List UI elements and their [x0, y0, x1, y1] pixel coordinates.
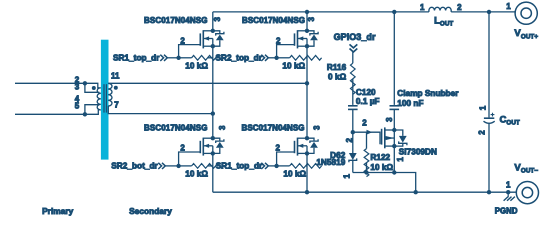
label COUT [500, 115, 520, 127]
wire leg B vertical [306, 12, 308, 192]
wire snubber to Si7309 drain [393, 109, 395, 130]
junction top rail / clamp column [392, 10, 396, 14]
junction bottom rail / leg B [305, 190, 309, 194]
label Q1 [144, 16, 208, 25]
label C120 [356, 88, 380, 106]
svg-text:BSC017N04NSG: BSC017N04NSG [144, 16, 208, 25]
wire primary pin4 jog [85, 105, 100, 115]
capacitor C120 [348, 106, 358, 110]
svg-text:3: 3 [313, 125, 322, 130]
transformer secondary winding [108, 83, 112, 106]
junction clamp gate node [351, 130, 355, 134]
wire C120 to clamp node [352, 109, 354, 132]
svg-text:11: 11 [111, 71, 120, 80]
label Q1 pin 2 [180, 37, 185, 46]
ground PGND [504, 190, 515, 201]
label Q2 gate resistor 10k [282, 61, 305, 70]
svg-text:OUT: OUT [440, 21, 454, 28]
svg-text:OUT: OUT [506, 119, 520, 126]
label D62 pin 2 [345, 137, 354, 142]
svg-text:SR1_top_dr: SR1_top_dr [113, 53, 160, 62]
svg-text:10 kΩ: 10 kΩ [370, 163, 393, 172]
label Q4 pin 2 [276, 143, 281, 152]
svg-text:R116: R116 [327, 63, 347, 72]
label LOUT [434, 16, 453, 28]
svg-text:GPIO3_dr: GPIO3_dr [334, 32, 376, 42]
svg-text:BSC017N04NSG: BSC017N04NSG [144, 123, 208, 132]
label Q3 [144, 123, 208, 132]
svg-text:3: 3 [213, 16, 222, 21]
label Si7309 pin 3 [385, 117, 394, 122]
diode D62 1N5819 [349, 132, 357, 172]
junction primary B [83, 112, 87, 116]
svg-text:SR2_top_dr: SR2_top_dr [216, 53, 263, 62]
wire secondary pin 11 [108, 82, 307, 84]
wire primary input B [15, 110, 99, 114]
label LOUT pin 1 [420, 3, 425, 12]
svg-text:1: 1 [342, 174, 351, 179]
svg-text:2: 2 [276, 143, 281, 152]
wire Si7309 source down [393, 146, 395, 172]
label VOUT- pin 1 [506, 180, 511, 189]
svg-text:10 kΩ: 10 kΩ [282, 61, 305, 70]
svg-text:2: 2 [362, 118, 367, 127]
label Secondary [129, 206, 172, 216]
label VOUT+ pin 1 [506, 2, 511, 11]
label Primary [42, 206, 74, 216]
svg-text:100 nF: 100 nF [397, 99, 423, 108]
label Q2 [242, 16, 305, 25]
svg-text:BSC017N04NSG: BSC017N04NSG [242, 16, 305, 25]
pin 4 label [75, 95, 80, 104]
label COUT pin 2 [477, 130, 486, 135]
svg-text:2: 2 [180, 37, 185, 46]
svg-text:BSC017N04NSG: BSC017N04NSG [242, 123, 305, 132]
label Q2 pin 2 [276, 37, 281, 46]
label Q1 pin 3 [213, 16, 222, 21]
label R116 [327, 63, 347, 82]
transformer core [104, 84, 106, 112]
svg-text:3: 3 [307, 16, 316, 21]
capacitor clamp snubber 100nF [390, 106, 400, 110]
svg-text:2: 2 [345, 137, 354, 142]
terminal VOUT+ [515, 2, 537, 24]
label Si7309 pin 1 [396, 157, 405, 162]
junction bottom rail / COUT column [487, 190, 491, 194]
svg-text:SR2_bot_dr: SR2_bot_dr [111, 161, 158, 170]
label Q3 pin 2 [180, 143, 185, 152]
resistor R116 [350, 63, 355, 94]
pin 5 label [75, 102, 80, 111]
label LOUT pin 2 [457, 3, 462, 12]
label Q3 gate resistor 10k [185, 169, 208, 178]
wire primary input A [15, 83, 99, 88]
label Q4 pin 3 [313, 125, 322, 130]
wire clamp bottom [353, 173, 416, 193]
svg-text:0.1 µF: 0.1 µF [356, 97, 380, 106]
svg-text:R122: R122 [370, 153, 390, 162]
pin 11 label [111, 71, 120, 80]
svg-text:Primary: Primary [42, 206, 74, 216]
label D62 pin 1 [342, 174, 351, 179]
svg-text:1: 1 [396, 157, 405, 162]
svg-text:1: 1 [506, 2, 511, 11]
label VOUT- [514, 163, 538, 175]
label D62 [316, 151, 345, 167]
secondary phase dot [114, 86, 118, 90]
svg-text:OUT+: OUT+ [521, 33, 538, 40]
svg-text:SR1_top_dr: SR1_top_dr [216, 161, 263, 170]
transistor Q2 BSC017N04NSG top-right [274, 29, 321, 61]
junction Si7309 source / clamp bottom [392, 170, 396, 174]
wire top output rail [213, 11, 515, 13]
svg-text:C120: C120 [356, 88, 376, 97]
pin 7 label [114, 101, 119, 110]
label Si7309 pin 2 [362, 118, 367, 127]
junction R122 bottom [364, 170, 368, 174]
svg-text:1: 1 [420, 3, 425, 12]
svg-text:3: 3 [218, 125, 227, 130]
wire leg A vertical [212, 12, 214, 192]
junction top rail / COUT column [487, 10, 491, 14]
label R122 [370, 153, 393, 172]
label Q2 pin 3 [307, 16, 316, 21]
svg-text:Secondary: Secondary [129, 206, 172, 216]
svg-text:10 kΩ: 10 kΩ [185, 169, 208, 178]
pin 2 label [75, 76, 80, 85]
svg-text:3: 3 [385, 117, 394, 122]
label Q1 gate resistor 10k [185, 61, 208, 70]
svg-text:1N5819: 1N5819 [316, 158, 345, 167]
junction pin11 / leg B [305, 81, 309, 85]
label clamp snubber [397, 89, 459, 108]
label Q4 [242, 123, 305, 132]
label Q4 gate resistor 10k [283, 169, 306, 178]
wire clamp cap column [393, 12, 395, 105]
wire gate node to Si7309 gate [353, 132, 380, 144]
resistor R122 [364, 132, 369, 176]
terminal VOUT- [516, 182, 538, 204]
svg-text:10 kΩ: 10 kΩ [185, 61, 208, 70]
junction pin7 / leg A [211, 111, 215, 115]
svg-text:1: 1 [479, 105, 488, 110]
label VOUT+ [514, 28, 538, 40]
svg-text:OUT−: OUT− [521, 168, 538, 175]
net SR1_top_dr top [113, 53, 179, 62]
transistor Q3 BSC017N04NSG bottom-left [176, 136, 223, 168]
wire primary pin3 jog [85, 83, 100, 92]
inductor LOUT [429, 7, 451, 12]
capacitor COUT [484, 118, 495, 123]
primary phase dot [92, 86, 96, 90]
svg-text:1: 1 [506, 180, 511, 189]
transistor Q4 BSC017N04NSG bottom-right [274, 136, 321, 168]
svg-text:2: 2 [276, 37, 281, 46]
junction bottom rail / clamp return [414, 190, 418, 194]
net SR2_bot_dr [111, 161, 178, 170]
svg-text:Clamp Snubber: Clamp Snubber [397, 89, 459, 98]
junction top rail / leg B [305, 10, 309, 14]
svg-text:3: 3 [75, 83, 80, 92]
svg-text:2: 2 [180, 143, 185, 152]
svg-text:Si7309DN: Si7309DN [399, 148, 437, 157]
svg-text:5: 5 [75, 102, 80, 111]
svg-text:0 kΩ: 0 kΩ [328, 73, 347, 82]
label COUT plus [491, 113, 495, 117]
svg-text:7: 7 [114, 101, 119, 110]
label PGND [495, 206, 518, 215]
label Q3 pin 3 [218, 125, 227, 130]
wire GPIO column [352, 52, 354, 63]
label Si7309DN [399, 148, 437, 157]
net SR1_top_dr bottom [216, 161, 277, 170]
net GPIO3_dr port [334, 32, 376, 52]
svg-text:2: 2 [477, 130, 486, 135]
transistor Q5 Si7309DN [382, 127, 407, 148]
isolation barrier [101, 40, 109, 160]
R122 tap arrow [367, 130, 373, 135]
wire bottom rail [213, 191, 517, 193]
junction primary A [83, 81, 87, 85]
wire R116 to C120 [352, 79, 354, 105]
net SR2_top_dr [216, 53, 277, 62]
transistor Q1 BSC017N04NSG top-left [176, 29, 223, 61]
pin 3 label [75, 83, 80, 92]
wire secondary pin 7 [108, 106, 213, 114]
svg-text:PGND: PGND [495, 206, 518, 215]
svg-text:10 kΩ: 10 kΩ [283, 169, 306, 178]
svg-text:2: 2 [457, 3, 462, 12]
wire COUT column [488, 12, 490, 192]
transformer primary winding [97, 88, 101, 110]
label COUT pin 1 [479, 105, 488, 110]
